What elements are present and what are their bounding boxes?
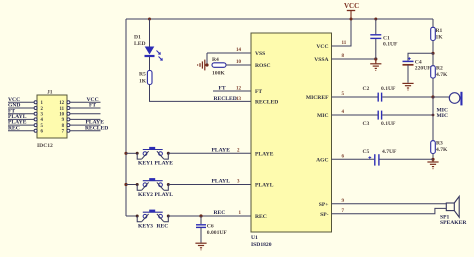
wire C2 to mic node <box>382 96 433 98</box>
wire LED branch vertical <box>149 19 151 47</box>
capacitor C6 <box>196 225 206 228</box>
label net RECLED <box>214 96 237 102</box>
wire R5 to RECLED corner <box>150 85 252 102</box>
wire R3 to ground node <box>432 154 434 160</box>
svg-text:VSSA: VSSA <box>314 57 328 63</box>
svg-text:0.1UF: 0.1UF <box>383 41 398 47</box>
wire C5 to ground node <box>380 158 434 160</box>
svg-text:R4: R4 <box>212 57 219 63</box>
label R3 value 4.7K <box>436 141 448 154</box>
capacitor C4 electrolytic 220UF <box>403 57 432 71</box>
svg-text:R3: R3 <box>436 141 443 147</box>
power VCC symbol <box>344 2 359 19</box>
svg-text:IDC12: IDC12 <box>37 143 53 149</box>
wire J1 pin3 <box>8 113 34 115</box>
pin number 2 <box>237 148 240 153</box>
svg-text:C5: C5 <box>363 149 370 155</box>
wire LED to R5 <box>149 57 151 71</box>
svg-text:PLAYL: PLAYL <box>155 192 174 198</box>
wire mic node down to R3 <box>432 97 434 141</box>
svg-text:0.001UF: 0.001UF <box>207 230 228 236</box>
svg-text:4.7K: 4.7K <box>436 147 448 153</box>
wire C6 stub <box>200 216 202 224</box>
svg-text:220UF: 220UF <box>415 66 431 72</box>
wire J1 pin11 <box>70 107 101 109</box>
svg-text:LED: LED <box>134 41 146 47</box>
svg-text:4.7K: 4.7K <box>436 72 448 78</box>
U1 right pin names <box>306 44 329 218</box>
svg-text:13: 13 <box>236 97 242 102</box>
svg-text:PLAYL: PLAYL <box>212 179 231 185</box>
wire mic node to microphone <box>433 96 449 98</box>
pin number 5 <box>342 92 345 97</box>
wire J1 pin7 <box>70 130 101 132</box>
ground below C4 <box>402 83 413 90</box>
wire top rail to C1 <box>375 19 377 34</box>
svg-text:KEY3: KEY3 <box>138 223 153 229</box>
svg-text:MICREF: MICREF <box>306 95 329 101</box>
svg-text:12: 12 <box>59 101 64 106</box>
svg-text:REC: REC <box>214 210 226 216</box>
svg-text:ISD1820: ISD1820 <box>251 242 272 248</box>
svg-text:1K: 1K <box>436 34 444 40</box>
node junction C4 branch <box>431 52 434 55</box>
svg-text:AGC: AGC <box>316 158 328 164</box>
wire C4 to ground <box>407 65 409 83</box>
svg-text:C4: C4 <box>415 59 422 65</box>
wire J1 pin1 <box>8 101 34 103</box>
svg-text:100K: 100K <box>212 71 225 77</box>
pin number 13 <box>236 97 242 102</box>
pin number 11 <box>342 41 347 46</box>
wire MICREF pin5 to C2 <box>332 96 378 98</box>
svg-text:REC: REC <box>8 125 20 131</box>
pin number 14 <box>236 48 242 53</box>
pin number 10 <box>236 60 242 65</box>
node junction C6 on REC wire <box>199 214 202 217</box>
pin number 8 <box>342 54 345 59</box>
label net PLAYL <box>212 179 231 185</box>
label net FT (J1 pin3) <box>8 108 15 114</box>
node junction C1 on top rail <box>374 18 377 21</box>
svg-text:10: 10 <box>59 113 64 118</box>
wire C4 branch <box>408 53 433 61</box>
svg-text:0.1UF: 0.1UF <box>381 86 396 92</box>
svg-text:4.7UF: 4.7UF <box>382 149 397 155</box>
connector J1 IDC12 <box>37 89 67 149</box>
label R1 value 1K <box>436 28 444 41</box>
wire KEY2 to PLAYL pin <box>168 184 251 186</box>
pin number 12 <box>236 86 242 91</box>
wire J1 pin8 <box>70 124 101 126</box>
node junction MIC wire <box>432 114 435 117</box>
label net REC (J1 pin6) <box>8 125 20 131</box>
wire left rail <box>125 19 127 216</box>
wire VSSA pin8 <box>332 58 376 60</box>
node junction VCC stub on top rail <box>350 18 353 21</box>
resistor R2 <box>431 66 436 78</box>
svg-text:PLAYE: PLAYE <box>212 147 231 153</box>
wire SP- pin7 to speaker <box>332 208 447 213</box>
label net FT (J1 pin11) <box>89 103 96 109</box>
label net RECLED (J1 pin7) <box>85 125 108 131</box>
svg-text:VSS: VSS <box>255 51 265 57</box>
resistor R3 <box>431 141 436 154</box>
label net GND (J1 pin2) <box>8 103 20 109</box>
wire VCC pin11 stub <box>332 19 352 46</box>
label C1 value 0.1UF <box>383 35 398 47</box>
wire R1 node to R2 <box>432 53 434 65</box>
svg-text:VCC: VCC <box>344 2 359 10</box>
node junction VSSA C1 ground <box>374 57 377 60</box>
ground (left-pointing) at R4 <box>198 60 207 71</box>
svg-text:SP+: SP+ <box>319 202 329 208</box>
ground below C6 <box>195 243 206 250</box>
J1 pin numbers left 1-6 <box>41 101 44 135</box>
svg-text:11: 11 <box>59 107 64 112</box>
J1 left pin circles <box>34 101 37 133</box>
wire J1 pin9 <box>70 118 101 120</box>
wire J1 pin12 <box>70 101 101 103</box>
label R5 value 1K <box>139 72 147 85</box>
pushbutton KEY1 (PLAYE) <box>136 147 174 167</box>
label net PLAYE (J1 pin5) <box>8 120 27 126</box>
label net MIC MIC <box>437 107 449 119</box>
svg-text:RECLED: RECLED <box>255 99 278 105</box>
node junction mic <box>431 95 434 98</box>
node junction LED branch on top rail <box>148 18 151 21</box>
svg-text:FT: FT <box>219 85 226 91</box>
pin number 9 <box>342 199 345 204</box>
speaker SP1 <box>440 196 467 226</box>
svg-text:RECLED: RECLED <box>214 96 237 102</box>
svg-text:VCC: VCC <box>316 44 328 50</box>
svg-text:0.1UF: 0.1UF <box>381 121 396 127</box>
label net PLAYL (J1 pin4) <box>8 114 27 120</box>
op-amp U1 ISD1820 body <box>251 33 332 248</box>
wire top rail corner to R1 <box>432 19 434 27</box>
svg-text:RECLED: RECLED <box>85 125 108 131</box>
ground below AGC node <box>427 159 438 168</box>
svg-text:C6: C6 <box>207 224 214 230</box>
node junction left rail row2 <box>124 183 127 186</box>
label net PLAYE (J1 pin8) <box>86 120 105 126</box>
pin number 4 <box>342 110 345 115</box>
svg-text:R5: R5 <box>139 72 146 78</box>
svg-text:SP-: SP- <box>320 212 329 218</box>
svg-text:12: 12 <box>236 86 242 91</box>
wire VSS down to ground node <box>206 53 208 65</box>
wire J1 pin4 <box>8 118 34 120</box>
node junction left rail row1 <box>124 152 127 155</box>
label D1 designator <box>134 35 146 47</box>
wire VSS pin stub <box>207 52 251 54</box>
capacitor C1 <box>370 35 381 39</box>
svg-text:U1: U1 <box>251 235 258 241</box>
svg-text:FT: FT <box>89 103 96 109</box>
svg-text:MIC: MIC <box>317 113 329 119</box>
capacitor C3 <box>378 111 381 120</box>
capacitor C5 electrolytic 4.7UF <box>363 149 398 165</box>
wire J1 pin6 <box>8 130 34 132</box>
label C3 value 0.1UF <box>363 121 397 127</box>
svg-text:14: 14 <box>236 48 242 53</box>
svg-text:REC: REC <box>255 214 267 220</box>
label net VCC (J1 pin12) <box>87 97 99 103</box>
svg-text:MIC: MIC <box>437 113 449 119</box>
wire left rail to KEY1 <box>126 152 137 154</box>
pin number 3 <box>237 180 240 185</box>
resistor R1 <box>431 27 436 40</box>
label net FT <box>219 85 226 91</box>
svg-text:KEY1: KEY1 <box>138 161 153 167</box>
node junction AGC ground <box>431 158 434 161</box>
svg-text:REC: REC <box>157 223 169 229</box>
wire KEY3 to REC pin <box>168 215 251 217</box>
wire SP+ pin9 to speaker <box>332 203 447 205</box>
wire J1 pin10 <box>70 113 101 115</box>
label C6 value 0.001UF <box>207 224 228 236</box>
pin number 1 <box>239 211 242 216</box>
label net REC <box>214 210 226 216</box>
svg-text:FT: FT <box>255 89 262 95</box>
pushbutton KEY3 (REC) <box>136 210 170 230</box>
svg-text:KEY2: KEY2 <box>138 192 153 198</box>
U1 left pin names <box>255 51 278 220</box>
wire J1 pin2 <box>8 107 34 109</box>
wire left rail to KEY2 <box>126 184 137 186</box>
svg-text:10: 10 <box>236 60 242 65</box>
label net VCC (J1 pin1) <box>8 97 20 103</box>
LED D1 <box>145 47 163 61</box>
label R2 value 4.7K <box>436 65 448 78</box>
pin number 6 <box>342 155 345 160</box>
svg-text:11: 11 <box>342 41 347 46</box>
wire top rail <box>126 18 433 20</box>
label C2 value 0.1UF <box>363 86 397 92</box>
svg-text:C3: C3 <box>363 121 370 127</box>
wire R2 to mic node <box>432 78 434 97</box>
svg-text:SPEAKER: SPEAKER <box>440 220 467 226</box>
wire MIC pin4 to C3 <box>332 114 378 116</box>
ground below VSSA node <box>370 59 381 70</box>
svg-text:R1: R1 <box>436 28 443 34</box>
pushbutton KEY2 (PLAYL) <box>136 178 174 198</box>
svg-text:PLAYE: PLAYE <box>255 151 274 157</box>
svg-text:PLAYL: PLAYL <box>255 183 274 189</box>
capacitor C2 <box>378 93 381 102</box>
wire C1 to VSSA node <box>375 39 377 59</box>
J1 right pin circles <box>67 101 70 133</box>
wire J1 pin5 <box>8 124 34 126</box>
svg-text:ROSC: ROSC <box>255 63 271 69</box>
node junction R4 ground <box>205 63 208 66</box>
resistor R4 <box>212 63 226 68</box>
wire FT stub <box>213 90 251 92</box>
svg-text:C2: C2 <box>363 86 370 92</box>
svg-text:D1: D1 <box>134 35 141 41</box>
svg-text:J1: J1 <box>47 89 53 95</box>
wire KEY1 to PLAYE pin <box>168 152 251 154</box>
resistor R5 <box>147 71 152 85</box>
J1 pin numbers right 12-7 <box>59 101 64 135</box>
svg-text:1K: 1K <box>139 79 147 85</box>
wire left rail corner to KEY3 <box>126 215 137 217</box>
wire R4 to ROSC pin <box>226 64 251 66</box>
svg-text:PLAYE: PLAYE <box>155 161 174 167</box>
wire C3 to R2-R3 line <box>382 114 433 116</box>
wire AGC pin6 to C5 <box>332 158 375 160</box>
wire R1 to C4 node <box>432 41 434 54</box>
microphone MIC symbol <box>449 92 462 106</box>
wire C6 to ground <box>200 227 202 242</box>
label R4 value 100K <box>212 57 225 76</box>
label net PLAYE <box>212 147 231 153</box>
pin number 7 <box>342 209 345 214</box>
svg-text:R2: R2 <box>436 65 443 71</box>
